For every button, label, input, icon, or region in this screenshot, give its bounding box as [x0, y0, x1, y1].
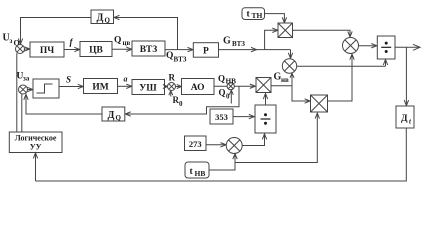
wire УШ to summator R [163, 85, 168, 89]
block Р [193, 43, 218, 58]
label Q_цв [114, 36, 131, 47]
block Логическое УУ [9, 132, 62, 153]
svg-text:Q: Q [105, 17, 111, 25]
svg-text:Д: Д [108, 110, 115, 121]
wire ПЧ to ЦВ, label f [64, 37, 80, 52]
svg-text:0: 0 [179, 100, 183, 108]
summator S1 (G_ВТЗ + G_нв) [282, 59, 296, 73]
relay block with step characteristic [33, 79, 59, 98]
wire temperature feedback into logic unit from below [33, 153, 37, 181]
multiplier M2 (Q_НВ x density) [256, 78, 271, 93]
divider D2 block [255, 105, 276, 133]
wire t_ТН to multiplier M1 [265, 14, 287, 23]
wire АО through Q_НВ junction to multiplier M2 [214, 84, 255, 88]
summator R junction [168, 83, 176, 91]
svg-text:R: R [169, 73, 176, 83]
svg-text:ПЧ: ПЧ [40, 46, 54, 56]
label Q_НВ [218, 74, 236, 86]
input R_0 stub with label [169, 91, 183, 108]
summator B (U_за junction) [19, 85, 28, 94]
label R above junction [169, 73, 176, 83]
block constant 353 [210, 109, 233, 124]
wire logic unit to summator B [21, 94, 23, 132]
svg-text:ВТЗ: ВТЗ [174, 56, 187, 64]
wire ВТЗ to Р with junction to Д_Q1 [114, 15, 193, 52]
block t_НВ [185, 162, 209, 178]
block АО [182, 79, 215, 95]
svg-text:за: за [23, 75, 30, 83]
node U_за input label [17, 72, 30, 83]
wire D1 output to the right, branch down to Д_t [395, 44, 420, 105]
wire S2 to divider D1 [359, 44, 377, 48]
wire M3 output up to summator S2 bottom, crossing S1 wire [328, 54, 355, 101]
svg-text:ТН: ТН [252, 11, 263, 20]
wire Д_t output feedback to logic unit [36, 128, 407, 181]
svg-text:353: 353 [215, 112, 228, 122]
svg-text:цв: цв [123, 39, 131, 47]
wire logic unit to summator A [16, 53, 18, 132]
wire M1 output to summator S2 top [293, 30, 353, 37]
wire S3 output to divider D2 bottom [242, 134, 267, 146]
summator S3 (273 + t_НВ) [226, 138, 242, 154]
label G_ВТЗ [223, 36, 245, 48]
svg-text:Q: Q [166, 51, 173, 61]
block ИМ [84, 79, 118, 94]
wire summator A to ПЧ [24, 47, 30, 51]
wire relay to ИМ, label S [59, 75, 83, 89]
summator S2 (numerator sum) [343, 38, 359, 54]
block t_ТН [242, 8, 265, 20]
svg-text:УУ: УУ [30, 143, 42, 152]
svg-text:АО: АО [191, 83, 205, 93]
multiplier M1 (t_ТН x G_ВТЗ) [278, 23, 293, 38]
svg-text:S: S [66, 75, 71, 85]
node U_zQ input label [3, 33, 20, 48]
wire S1 output to divider D1 bottom, crossing vertical [297, 60, 388, 67]
divider D1 block [377, 36, 395, 59]
svg-text:G: G [223, 36, 231, 47]
svg-text:ВТЗ: ВТЗ [140, 45, 158, 55]
block Д_t sensor [396, 106, 414, 128]
summator C (Q_НВ junction) [227, 83, 234, 90]
svg-text:Д: Д [401, 114, 408, 124]
wire 353 to divider D2 [233, 114, 254, 118]
block constant 273 [185, 136, 207, 151]
svg-text:НВ: НВ [195, 169, 206, 178]
svg-text:ЦВ: ЦВ [89, 46, 103, 56]
svg-text:Логическое: Логическое [15, 134, 57, 143]
svg-text:a: a [124, 75, 128, 84]
svg-text:нв: нв [281, 76, 289, 84]
wire ЦВ to ВТЗ [112, 47, 132, 51]
wire ИМ to УШ, label a [118, 75, 132, 89]
block ЦВ [80, 42, 112, 57]
svg-text:з: з [10, 37, 13, 45]
svg-text:ВТЗ: ВТЗ [232, 40, 245, 48]
block ВТЗ [132, 41, 165, 56]
wire 273 to summator S3 [206, 143, 226, 147]
svg-text:УШ: УШ [139, 84, 157, 94]
wire Р output G_ВТЗ with mid arrow, branch up to multiplier M1, end into summator S1 [219, 28, 293, 58]
label Q_ВТЗ [166, 51, 187, 64]
multiplier M3 (G_нв x t_НВ) [311, 95, 328, 112]
wire summator R to АО [176, 85, 182, 89]
svg-text:Q: Q [218, 74, 225, 84]
block УШ [132, 80, 165, 95]
label G_нв [274, 72, 290, 84]
svg-text:273: 273 [189, 139, 202, 149]
wire Д_Q1 feedback output to summator A [18, 18, 91, 45]
wire feedback branch to Д_Q2 [125, 86, 239, 116]
svg-text:ИМ: ИМ [92, 83, 108, 93]
wire t_НВ to summator S3 and branch to multiplier M3 bottom [209, 113, 320, 170]
wire summator B to relay [27, 87, 33, 91]
block Д_Q feedback bottom [102, 107, 125, 122]
block Д_Q feedback top [91, 10, 114, 25]
svg-text:Q: Q [219, 88, 226, 98]
svg-text:Р: Р [203, 47, 209, 57]
svg-text:Q: Q [114, 36, 121, 46]
svg-text:Д: Д [97, 13, 104, 24]
wire D2 output up into M2 bottom [263, 94, 267, 106]
input Q_0 stub with label [219, 88, 234, 104]
svg-text:Q: Q [116, 114, 122, 122]
summator A (U_zQ junction) [16, 45, 25, 54]
svg-text:НВ: НВ [226, 77, 237, 86]
wire G_нв: M2 output, branch up to S1, down to multiplier M3 [271, 73, 310, 103]
svg-text:0: 0 [226, 93, 230, 101]
block ПЧ [30, 42, 64, 57]
wire Д_Q2 output to summator B [24, 94, 102, 114]
